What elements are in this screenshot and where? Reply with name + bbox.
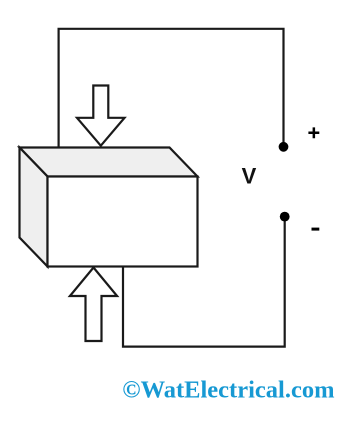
terminal dot - — [280, 212, 290, 222]
svg-text:V: V — [242, 163, 257, 188]
wire top: crystal top to + terminal — [59, 29, 284, 148]
force arrow down — [77, 86, 125, 146]
force arrow up — [70, 268, 117, 342]
label + — [308, 127, 319, 138]
crystal box front face — [48, 177, 198, 267]
crystal box left face — [20, 148, 48, 267]
wire bottom: crystal bottom to - terminal — [123, 217, 285, 347]
crystal box top face — [20, 148, 198, 177]
terminal dot + — [279, 142, 289, 152]
svg-text:©WatElectrical.com: ©WatElectrical.com — [122, 377, 334, 404]
label - — [312, 228, 320, 231]
